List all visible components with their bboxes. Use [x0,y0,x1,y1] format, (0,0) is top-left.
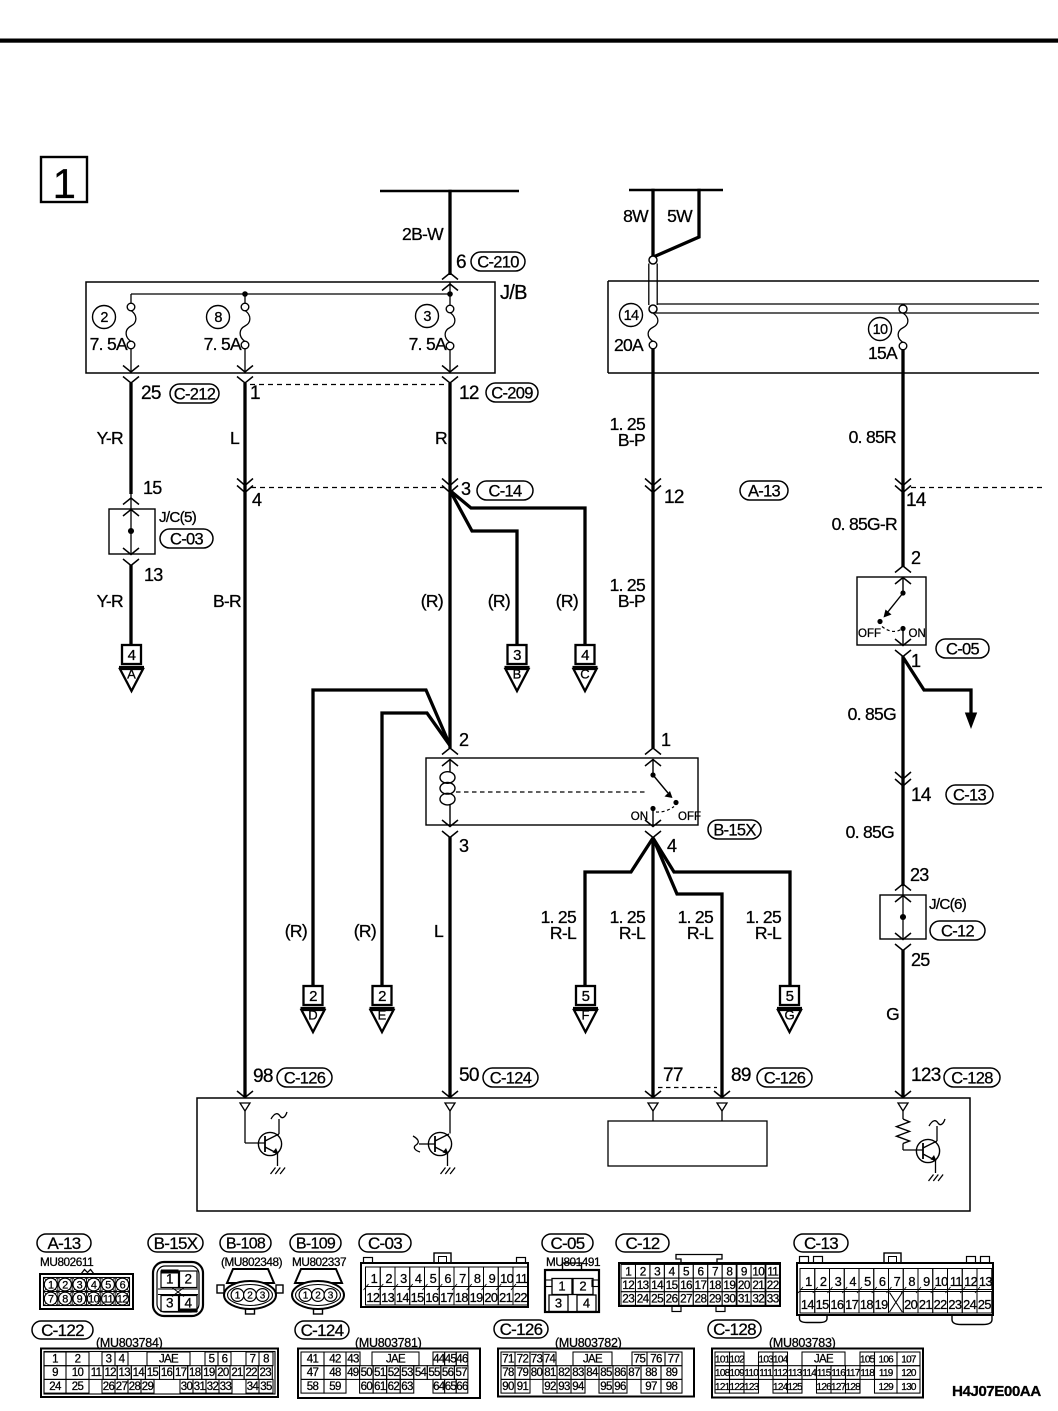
svg-text:B-109: B-109 [296,1236,336,1253]
svg-text:11: 11 [103,1293,114,1305]
svg-text:C-126: C-126 [500,1320,543,1339]
svg-text:103: 103 [758,1355,774,1366]
svg-text:(MU802348): (MU802348) [221,1255,283,1269]
wire 8W [623,189,653,256]
svg-text:73: 73 [531,1354,543,1366]
svg-text:27: 27 [116,1381,128,1393]
svg-text:4: 4 [849,1274,856,1289]
fuse 3 designator [416,305,439,328]
switch common node [900,590,905,595]
svg-text:55: 55 [428,1367,440,1379]
terminal E [370,986,395,1032]
pin 14 label lower [911,785,932,806]
J/C(5) name label [159,509,197,526]
svg-text:25: 25 [72,1381,84,1393]
svg-text:87: 87 [628,1367,640,1379]
chevrons relay pin 3 [442,820,458,838]
chevrons relay pin 1 [645,748,661,766]
relay switch ON contact [650,806,655,811]
wire 1.25 R-L to pin 77 [610,838,653,1097]
switch OFF text [858,628,881,640]
svg-text:12: 12 [964,1274,978,1289]
dashed connector grouping line C-209 [250,384,446,386]
connector chevrons into J/B [442,273,458,291]
transistor Q1 [258,1132,281,1155]
svg-text:3: 3 [461,479,471,499]
chevrons C-14 pin 3 [442,479,458,493]
svg-text:3: 3 [555,1296,562,1311]
connector C-05 pinout [545,1263,599,1312]
svg-text:20: 20 [484,1290,498,1305]
chevrons A-13 pin 12 [645,479,661,493]
svg-text:7: 7 [250,1354,256,1366]
svg-text:30: 30 [181,1381,193,1393]
svg-text:125: 125 [787,1382,803,1393]
receptacle stub 123 [898,1103,908,1111]
svg-text:7: 7 [48,1293,54,1305]
svg-text:3: 3 [835,1274,842,1289]
svg-text:10: 10 [935,1274,949,1289]
svg-text:79: 79 [517,1367,529,1379]
svg-text:17: 17 [695,1278,707,1292]
svg-text:1: 1 [625,1264,631,1278]
svg-text:88: 88 [645,1367,657,1379]
svg-text:6: 6 [697,1264,704,1278]
relay switch common wire [652,759,654,773]
svg-text:19: 19 [470,1290,484,1305]
wire 2B-W [402,190,450,275]
svg-text:21: 21 [231,1367,243,1379]
svg-text:19: 19 [723,1278,735,1292]
relay pin 2 label [459,730,469,750]
top power bus bar [0,39,1058,43]
svg-text:89: 89 [666,1367,678,1379]
dashed connector line right [911,487,1046,489]
connector label C-14 [477,481,533,500]
relay switch throw dashed arc [656,807,674,813]
J/B output chevrons pin 12 [442,366,458,384]
J/C(6) name label [929,896,967,913]
svg-text:JAE: JAE [386,1354,406,1366]
pin 1 label [250,383,260,404]
transistor Q3 base wire [903,1149,923,1151]
connector label B-15X panel [148,1234,203,1253]
pin 15 label [143,478,162,498]
pin 12 label A-13 [664,487,684,508]
svg-text:8: 8 [474,1271,481,1286]
svg-text:12: 12 [366,1290,380,1305]
svg-text:104: 104 [773,1355,789,1366]
svg-text:93: 93 [558,1381,570,1393]
fuse 8 rating 7.5A [204,334,242,354]
receptacle stub 89 [717,1103,727,1111]
svg-text:(R): (R) [488,591,510,611]
battery feed line right [629,189,723,192]
terminal A [119,645,144,691]
svg-text:0. 85G: 0. 85G [846,822,894,842]
fuse 3 7.5A [445,305,455,373]
connector C-126 pinout [498,1349,694,1397]
svg-text:42: 42 [329,1354,341,1366]
svg-text:78: 78 [502,1367,514,1379]
svg-text:8: 8 [214,310,222,326]
svg-text:62: 62 [388,1381,400,1393]
switch arm with arrow [884,593,904,618]
relay B-15X box [426,758,698,825]
svg-text:B-15X: B-15X [713,821,756,839]
svg-text:109: 109 [729,1368,745,1379]
svg-text:22: 22 [934,1297,948,1312]
wire R [435,383,450,748]
svg-text:Y-R: Y-R [97,428,123,448]
lighting switch box [857,577,926,645]
svg-text:20: 20 [904,1297,918,1312]
svg-text:(R): (R) [421,591,443,611]
svg-text:JAE: JAE [159,1354,179,1366]
svg-text:G: G [784,1008,794,1023]
switch output wire [902,628,904,645]
transistor Q2 [428,1132,451,1155]
svg-text:H4J07E00AA: H4J07E00AA [952,1383,1041,1400]
svg-text:15: 15 [411,1290,425,1305]
svg-text:86: 86 [614,1367,626,1379]
branch wire to terminal B [450,491,517,647]
svg-text:3: 3 [423,309,431,325]
Q1 emitter wire [277,1154,279,1167]
connector label C-03 [160,529,213,548]
svg-text:2: 2 [100,310,108,326]
fuse 8 designator [207,306,230,329]
transistor Q3 [916,1139,939,1162]
svg-text:71: 71 [502,1354,514,1366]
svg-text:3: 3 [513,647,521,664]
fusible link pass-through [649,264,657,306]
svg-text:120: 120 [901,1368,917,1379]
svg-text:102: 102 [729,1355,745,1366]
svg-text:14: 14 [396,1290,410,1305]
J/B output chevrons pin 1 [237,366,253,384]
wire 1.25 R-L to terminal G [653,838,790,987]
terminal B [505,645,530,691]
svg-text:C-209: C-209 [491,384,533,402]
svg-text:C-03: C-03 [368,1234,402,1253]
svg-text:19: 19 [875,1297,889,1312]
svg-text:4: 4 [415,1271,422,1286]
svg-text:B-15X: B-15X [154,1234,198,1253]
Q1 collector wire with break [271,1112,287,1134]
svg-text:F: F [582,1008,590,1023]
svg-text:C-126: C-126 [284,1069,326,1087]
chevrons C-14 pin 4 [237,479,253,493]
connector label A-13 panel [37,1234,91,1253]
svg-text:7: 7 [712,1264,718,1278]
svg-text:51: 51 [374,1367,386,1379]
svg-text:J/B: J/B [500,282,527,304]
pin 23 label [910,865,929,885]
svg-text:4: 4 [667,836,677,856]
svg-text:3: 3 [400,1271,407,1286]
ground Q1 [271,1168,286,1175]
connector label C-05 [936,639,989,658]
svg-text:33: 33 [767,1292,780,1306]
svg-text:8: 8 [726,1264,733,1278]
chevrons out of J/C(6) [895,933,911,951]
sheet number box 1 [41,157,87,207]
svg-text:13: 13 [144,565,163,585]
part number MU803781 [355,1336,422,1350]
svg-text:130: 130 [901,1382,917,1393]
svg-text:12: 12 [117,1293,129,1305]
wire 1.25 R-L to pin 89 [653,838,722,1097]
box entry chevron 123 [895,1091,911,1098]
svg-text:3: 3 [106,1354,112,1366]
svg-text:JAE: JAE [814,1354,834,1366]
svg-text:(R): (R) [556,591,578,611]
svg-text:121: 121 [715,1382,731,1393]
svg-text:R: R [435,428,447,448]
svg-text:23: 23 [260,1367,272,1379]
svg-text:46: 46 [456,1354,468,1366]
svg-text:106: 106 [878,1355,894,1366]
svg-text:19: 19 [203,1367,215,1379]
J/B output chevrons pin 25 [123,366,139,384]
Q2 base wire with break [413,1136,435,1152]
terminal G [777,986,802,1032]
svg-text:11: 11 [515,1271,528,1286]
terminal F [573,986,598,1032]
battery feed line left [380,190,519,193]
wire 0.85G lower label [846,822,894,842]
connector label C-209 [486,383,538,402]
svg-text:2: 2 [315,1291,321,1302]
svg-text:12: 12 [459,383,479,404]
svg-text:58: 58 [307,1381,319,1393]
svg-text:94: 94 [572,1381,585,1393]
svg-text:123: 123 [911,1065,941,1086]
svg-text:21: 21 [919,1297,933,1312]
wire 0.85G upper [848,656,903,886]
svg-text:B-108: B-108 [226,1236,266,1253]
svg-text:14: 14 [801,1297,815,1312]
part number MU802337 [292,1255,346,1269]
wire (R) main label [421,591,443,611]
svg-text:33: 33 [220,1381,232,1393]
svg-text:25: 25 [141,383,161,404]
pin 4 label [252,490,262,510]
connector label C-128 panel [708,1320,761,1339]
svg-text:B: B [513,667,522,682]
svg-text:105: 105 [860,1355,876,1366]
svg-text:1: 1 [52,1354,58,1366]
svg-text:25: 25 [911,950,930,970]
svg-text:C-13: C-13 [953,786,986,804]
fuse 14 designator [620,304,643,327]
transistor Q2 collector wire [449,1111,451,1134]
svg-text:13: 13 [979,1274,993,1289]
svg-text:50: 50 [459,1065,479,1086]
chevrons into J/C(6) [895,884,911,902]
connector label C-124 panel [295,1321,349,1340]
svg-text:57: 57 [455,1367,467,1379]
control unit box [197,1098,970,1211]
svg-text:C-05: C-05 [946,640,979,658]
svg-text:91: 91 [517,1381,529,1393]
svg-text:5: 5 [786,988,794,1005]
branch wire with arrow to tail lamps [904,658,978,729]
svg-text:31: 31 [194,1381,206,1393]
svg-text:1: 1 [250,383,260,404]
svg-text:25: 25 [651,1292,664,1306]
branch wire to terminal C [450,491,585,647]
svg-text:117: 117 [846,1368,861,1379]
svg-text:81: 81 [544,1367,556,1379]
svg-text:9: 9 [741,1264,747,1278]
chevrons relay pin 2 [442,748,458,766]
svg-text:16: 16 [680,1278,693,1292]
svg-text:80: 80 [531,1367,543,1379]
internal module block [608,1111,767,1166]
svg-text:14: 14 [911,785,932,806]
svg-text:1: 1 [805,1274,812,1289]
svg-text:2: 2 [820,1274,827,1289]
svg-text:2: 2 [309,988,317,1005]
relay designator label B-15X [708,820,761,839]
svg-text:25: 25 [978,1297,992,1312]
connector label C-03 panel [359,1234,411,1253]
chevrons into J/C(5) [123,498,139,516]
svg-text:111: 111 [759,1368,773,1379]
pin 77 label [663,1065,683,1086]
connector C-13 pinout [797,1253,993,1325]
svg-text:2: 2 [385,1271,392,1286]
svg-text:12: 12 [622,1278,634,1292]
connector C-03 pinout [361,1253,528,1307]
svg-text:26: 26 [666,1292,679,1306]
svg-text:9: 9 [923,1274,930,1289]
connector label C-13 panel [794,1234,848,1253]
svg-text:MU801491: MU801491 [546,1255,600,1269]
connector label C-126 left [277,1068,332,1087]
svg-text:24: 24 [49,1381,62,1393]
svg-text:C-124: C-124 [490,1069,532,1087]
svg-text:OFF: OFF [678,811,701,823]
svg-text:92: 92 [544,1381,556,1393]
connector label C-210 [471,252,525,271]
svg-text:18: 18 [455,1290,469,1305]
svg-text:R-L: R-L [687,923,714,943]
svg-text:5: 5 [864,1274,871,1289]
pin 98 label [253,1066,273,1087]
svg-text:27: 27 [680,1292,692,1306]
wire 1.25 B-P upper [610,349,653,748]
pin 3 label [461,479,471,499]
wire B-R label [213,591,241,611]
svg-text:1: 1 [303,1291,309,1302]
svg-text:0. 85R: 0. 85R [849,427,896,447]
relay pin 1 label [661,730,671,750]
svg-text:4: 4 [119,1354,126,1366]
svg-text:2: 2 [459,730,469,750]
connector label B-109 panel [290,1234,341,1253]
terminal C [573,645,598,691]
svg-text:C-128: C-128 [951,1069,993,1087]
svg-text:17: 17 [440,1290,454,1305]
connector label B-108 panel [220,1234,271,1253]
svg-text:ON: ON [909,628,926,640]
connector label C-05 panel [542,1234,593,1253]
connector label C-126 right [757,1068,812,1087]
svg-text:65: 65 [445,1381,457,1393]
svg-text:56: 56 [442,1367,454,1379]
pin 123 label [911,1065,941,1086]
svg-text:6: 6 [444,1271,451,1286]
J/B internal bus wire [131,282,450,306]
relay switch common node [650,772,655,777]
part number MU801491 [546,1255,600,1269]
fuse 8 7.5A [240,303,250,373]
relay switch OFF contact [673,800,678,805]
svg-text:0. 85G-R: 0. 85G-R [832,514,897,534]
svg-text:77: 77 [663,1065,683,1086]
svg-text:110: 110 [744,1368,759,1379]
svg-text:29: 29 [709,1292,721,1306]
svg-text:4: 4 [91,1279,97,1291]
svg-text:22: 22 [514,1290,528,1305]
svg-text:15: 15 [816,1297,830,1312]
Q2 emitter wire [447,1154,449,1167]
svg-text:3: 3 [328,1291,334,1302]
chevrons C-13 pin 14 upper [895,479,911,493]
svg-text:113: 113 [788,1368,803,1379]
svg-text:3: 3 [654,1264,661,1278]
switch input wire [902,577,904,592]
svg-text:MU802337: MU802337 [292,1255,346,1269]
svg-text:2: 2 [62,1279,68,1291]
Q3 collector wire with break [929,1119,945,1141]
svg-text:5: 5 [683,1264,690,1278]
svg-text:D: D [308,1008,317,1023]
chevrons out of J/C(5) [123,548,139,566]
ground Q2 [441,1168,456,1175]
svg-text:14: 14 [624,308,639,324]
connector label C-13 [946,785,993,804]
svg-text:1: 1 [166,1272,174,1287]
svg-text:50: 50 [361,1367,373,1379]
svg-text:6: 6 [120,1279,126,1291]
part number MU803783 [769,1336,836,1350]
svg-text:5: 5 [582,988,590,1005]
switch ON contact [900,626,905,631]
svg-text:48: 48 [329,1367,341,1379]
svg-text:10: 10 [752,1264,765,1278]
receptacle stub 50 [445,1103,455,1111]
fuse 10 15A [898,305,908,350]
pin 25 label [141,383,161,404]
svg-text:29: 29 [142,1381,154,1393]
svg-text:B-P: B-P [618,591,645,611]
svg-text:72: 72 [517,1354,529,1366]
svg-text:15: 15 [143,478,162,498]
svg-text:G: G [886,1004,899,1024]
svg-text:115: 115 [817,1368,832,1379]
dashed connector grouping line C-14 [251,487,444,489]
svg-text:96: 96 [614,1381,626,1393]
svg-text:A-13: A-13 [47,1234,80,1253]
svg-text:23: 23 [910,865,929,885]
svg-text:J/C(6): J/C(6) [929,896,967,913]
svg-text:84: 84 [586,1367,599,1379]
svg-text:116: 116 [831,1368,846,1379]
